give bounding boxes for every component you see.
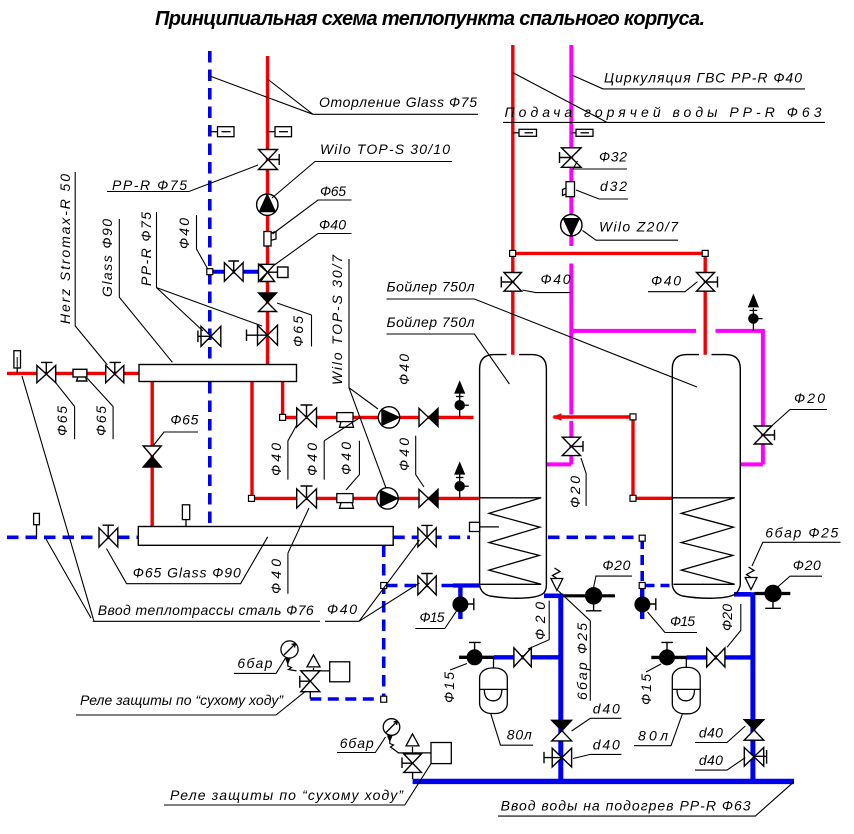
wire: expansion branch boiler2 (black part) y=657.4 <box>651 656 686 659</box>
wire: drain line through ball valve boiler2 y=593.5 <box>755 592 791 595</box>
svg-text:Ф15: Ф15 <box>441 672 457 703</box>
svg-text:6бар: 6бар <box>237 655 272 671</box>
svg-text:Wilo TOP-S 30/7: Wilo TOP-S 30/7 <box>329 254 345 385</box>
svg-text:Ф20: Ф20 <box>793 557 821 573</box>
svg-text:d40: d40 <box>699 725 723 741</box>
leader: F20 circulation boiler2 label <box>766 410 827 432</box>
gauge pocket on circulation riser <box>571 129 593 136</box>
leader: F20 drain boiler1 label <box>593 576 632 590</box>
leader: F20 expansion valve2 rotated <box>727 604 741 647</box>
leader: Wilo TOP-S 30/7 rotated <box>349 259 386 488</box>
wire: red link boiler1 to boiler2 y=417 <box>554 415 634 418</box>
leader: circulation GVS label <box>572 75 805 89</box>
svg-text:Wilo TOP-S 30/10: Wilo TOP-S 30/10 <box>320 141 450 157</box>
wire: heating supply riser (red) x=267.5 <box>266 56 269 365</box>
expansion tank 80l #1 <box>480 657 508 713</box>
relay1 pulse tube <box>286 659 297 671</box>
union lower pump line <box>337 494 354 509</box>
wire: cold riser1 (thick blue) x=560.8 <box>558 594 563 782</box>
wire: magenta header y=330.9 right part <box>716 329 763 464</box>
leader: F15 tap boiler2 label <box>648 612 698 633</box>
node red link bottom <box>630 495 636 501</box>
balancing valve on blue branch <box>224 261 243 281</box>
wire: red header between boiler risers y=253.4 <box>513 252 705 255</box>
check valve F65 on collector drop <box>143 446 161 467</box>
leader: rotated F65 #2 <box>87 378 113 439</box>
valve F20 expansion branch boiler2 <box>707 648 725 667</box>
wire: drain line through ball valve boiler1 y=595.8 <box>563 594 615 597</box>
wire: heating pump branch (blue solid) y=271.7 <box>210 270 259 274</box>
wire: cold tap under boiler1 inlet x=460.4 <box>458 586 462 620</box>
safety valve 6bar F25 riser2 <box>745 567 757 590</box>
wire: red into boiler2 coil y=498.3 <box>633 497 673 500</box>
gauge pocket on boiler1 riser <box>513 129 537 136</box>
svg-text:Ф40: Ф40 <box>319 217 346 233</box>
wire: magenta riser middle segment <box>569 264 573 415</box>
leader: d40 check2 label <box>695 726 745 743</box>
wire: lower boiler feed line (red) y=498.4 <box>252 497 479 500</box>
leader: Otoplenie label <box>210 76 478 114</box>
leader: 6bar gauge2 label <box>337 737 386 753</box>
check valve F65 on supply riser <box>259 293 277 312</box>
wire: upper boiler feed line (red) y=417.4 <box>283 416 474 419</box>
valve F20 expansion branch boiler1 <box>514 648 531 667</box>
svg-text:Циркуляция ГВС PP-R Ф40: Циркуляция ГВС PP-R Ф40 <box>604 70 802 86</box>
leader: 80l tank1 label <box>491 713 533 745</box>
check valve d40 riser2 <box>744 720 764 741</box>
relay2 air vent <box>406 734 419 753</box>
leader: F65 Glass F90 label <box>107 537 268 584</box>
svg-text:Ф40: Ф40 <box>651 273 681 289</box>
check valve upper pump line <box>419 408 438 426</box>
svg-text:Реле защиты по “сухому ходу”: Реле защиты по “сухому ходу” <box>80 692 284 708</box>
svg-text:Ф40: Ф40 <box>268 443 284 476</box>
svg-text:Wilo Z20/7: Wilo Z20/7 <box>599 219 679 235</box>
svg-text:Ф65: Ф65 <box>93 406 109 436</box>
wire: boiler1 top riser (red) x=513 <box>511 45 514 355</box>
leader: F15 branch1 rotated <box>450 664 467 671</box>
svg-text:d40: d40 <box>699 752 723 768</box>
relay2 valve <box>402 754 421 773</box>
shut-off valve on return riser (left stem) <box>198 326 221 346</box>
leader: Wilo TOP-S 30/10 label <box>272 162 452 199</box>
pump Wilo TOP-S 30/7 upper <box>378 407 399 428</box>
leader: d32 label <box>576 190 628 199</box>
air vent lower boiler feed <box>455 463 469 498</box>
thermometer well on collector2 <box>182 505 189 527</box>
wire: expansion branch boiler1 (blue part) y=657.3 <box>494 655 561 659</box>
leader: F40 check valves label <box>325 540 420 621</box>
thermometer well on entrance <box>14 351 21 374</box>
check valve lower pump line <box>419 489 438 507</box>
wire: magenta header y=330.9 left part <box>571 329 696 333</box>
boiler1 coil <box>480 498 542 585</box>
valve F65 on return entrance <box>99 525 118 547</box>
svg-text:Ф20: Ф20 <box>719 604 735 631</box>
air vent on magenta header <box>749 295 763 331</box>
pump Wilo Z20/7 <box>561 215 582 236</box>
svg-text:d32: d32 <box>600 178 627 194</box>
svg-text:Ф65: Ф65 <box>170 412 198 428</box>
ball valve F15 tap boiler2 <box>635 597 656 612</box>
flow arrow on red link <box>552 413 562 421</box>
valve F65 entrance #2 <box>106 362 124 382</box>
wire: red drop to lower pump line x=252 <box>250 382 253 499</box>
compensator d32 on circulation riser <box>563 182 575 197</box>
svg-text:Ф40: Ф40 <box>396 354 412 385</box>
svg-text:Glass Ф90: Glass Ф90 <box>99 219 115 297</box>
svg-text:6бар: 6бар <box>340 735 374 751</box>
boiler 750l #1 shell <box>480 355 547 599</box>
svg-text:Бойлер 750л: Бойлер 750л <box>387 279 475 295</box>
node lower pump line <box>249 495 255 501</box>
wire: blue dashed to dry-run relay y=699 <box>310 697 383 701</box>
leader: F40 three-way label <box>273 234 352 267</box>
ball valve F15 on expansion branch boiler2 <box>660 642 675 664</box>
svg-text:Ф15: Ф15 <box>420 609 445 625</box>
svg-text:80л: 80л <box>638 728 668 744</box>
wire: boiler2 top riser (red) x=705.2 <box>704 253 707 354</box>
gauge pocket on supply riser top <box>268 127 292 137</box>
svg-text:Ф20: Ф20 <box>567 476 583 508</box>
node on red header right <box>702 250 708 256</box>
leader: Glass F90 <box>119 219 172 362</box>
valve F40 dashed line to boiler1 upper <box>418 525 436 546</box>
valve on supply riser (with right stem) <box>259 150 280 170</box>
dry-run relay assembly 1: manometer <box>281 641 298 658</box>
boiler2 coil <box>672 498 734 585</box>
leader: d40 valve1 label <box>573 754 621 758</box>
node on red header left <box>510 250 516 256</box>
wire: blue solid into boiler1 bottom y=585.5 <box>453 583 480 587</box>
check valve d40 riser1 <box>552 720 572 741</box>
node cold tee lower x=642.2 <box>639 583 645 589</box>
thermometer well on return entrance <box>34 513 40 537</box>
leader: F65 check collector label <box>153 432 198 446</box>
svg-text:Ф40: Ф40 <box>327 601 357 617</box>
wire: relay2 stem to main <box>412 772 414 779</box>
leader: cold water inlet label <box>498 782 794 816</box>
node upper pump line <box>280 414 286 420</box>
wire: blue dashed cold inlet boiler1 y=585.5 <box>386 584 453 588</box>
gauge pocket on return riser top <box>210 127 234 137</box>
wire: blue dashed boiler1 right to tee y=537.3 <box>548 535 641 539</box>
collector: supply manifold Glass F90 <box>139 365 297 382</box>
leader: F40 rotated a <box>288 425 297 480</box>
node relay1 corner <box>381 696 387 702</box>
valve F32 on circulation riser (left stem) <box>560 148 582 168</box>
leader: F20 expansion valve1 rotated <box>528 601 549 649</box>
wire: expansion branch boiler2 (blue part) y=657.4 <box>687 655 753 659</box>
leader: dry-run relay2 label <box>164 764 431 805</box>
leader: F40 rotated c <box>346 441 359 490</box>
svg-text:d40: d40 <box>593 736 620 752</box>
wire: blue dashed drop to relay x=383.7 <box>382 546 386 700</box>
safety valve 6bar F25 riser1 <box>551 568 563 591</box>
svg-text:Ф40: Ф40 <box>176 218 192 249</box>
leader: F15 tap boiler1 label <box>415 610 457 628</box>
relay1 line and pressure switch box <box>302 662 349 682</box>
dry-run relay assembly 2: manometer <box>383 719 400 736</box>
wire: return riser (blue dashed) x=209.8 lower <box>208 382 212 526</box>
wire: return entrance (blue dashed) y=537.3 left <box>7 535 139 539</box>
shut-off valve on supply riser (left stem) <box>247 325 278 345</box>
svg-text:Ф65 Glass Ф90: Ф65 Glass Ф90 <box>133 564 241 580</box>
valve F40 boiler1 top (left stem) <box>501 273 521 292</box>
svg-text:PP-R Ф75: PP-R Ф75 <box>138 212 154 286</box>
leader: hot water supply label <box>503 73 825 123</box>
svg-text:Ф15: Ф15 <box>670 613 695 629</box>
valve F40 upper pump line <box>297 405 317 427</box>
leader: F32 label <box>573 161 627 169</box>
leader: Wilo Z20/7 label <box>583 231 679 241</box>
leader: F40 rotated lower valve <box>288 508 309 594</box>
svg-text:Ф40: Ф40 <box>304 443 320 476</box>
leader: heat main inlet label <box>22 376 320 621</box>
svg-text:Ф65: Ф65 <box>320 183 346 199</box>
wire: blue dashed cold inlet boiler2 y=585.5 <box>646 584 673 588</box>
wire: cold riser2 (thick blue) x=752.9 <box>750 592 755 781</box>
svg-text:Ф65: Ф65 <box>54 406 70 436</box>
svg-text:Принципиальная схема теплопунк: Принципиальная схема теплопункта спально… <box>155 8 705 30</box>
wire: circulation riser (magenta) x=571.3 upper <box>569 45 573 246</box>
leader: F65 check riser rotated <box>277 303 312 347</box>
valve F20 circulation boiler2 (right stem) <box>754 426 774 444</box>
wire: return riser (blue dashed) x=209.8 upper <box>208 51 212 364</box>
wire: blue dashed collector2 to boiler1 y=537.3 <box>393 535 470 539</box>
leader: PP-R F75 top label <box>107 165 258 192</box>
leader: Boiler 750l #2 label <box>387 334 510 384</box>
leader: F40 blue branch <box>197 215 208 269</box>
leader: F20 circulation valve1 rotated <box>581 458 586 506</box>
pump Wilo TOP-S 30/10 <box>257 194 278 215</box>
ball valve F15 tap boiler1 <box>453 597 474 612</box>
valve F40 dashed line to boiler1 lower <box>418 574 436 595</box>
leader: F40 valve boiler2 label <box>648 282 698 292</box>
svg-text:Ф15: Ф15 <box>638 674 654 705</box>
svg-text:Оторление Glass Ф75: Оторление Glass Ф75 <box>319 94 477 110</box>
leader: F20 drain boiler2 label <box>777 576 823 588</box>
valve F40 boiler2 top (right stem) <box>697 273 718 292</box>
svg-text:Ф40: Ф40 <box>541 271 571 287</box>
leader: rotated F65 #1 <box>56 383 75 440</box>
wire: magenta riser lower segment into boiler1 <box>546 421 571 464</box>
leader: d40 valve2 label <box>695 758 745 771</box>
boiler 750l #2 shell <box>672 355 740 599</box>
svg-text:Ввод воды на подогрев PP-R Ф63: Ввод воды на подогрев PP-R Ф63 <box>501 798 751 814</box>
wire: expansion branch boiler1 (black part) y=657.3 <box>459 656 494 659</box>
wire: red drop x=633 <box>631 417 634 498</box>
collector: return manifold Glass F90 <box>138 527 393 546</box>
svg-text:Ф65: Ф65 <box>290 316 306 347</box>
node cold tee upper x=642.2 <box>639 535 645 541</box>
three-way mixing valve F40 <box>259 264 289 281</box>
wire: boiler1 bottom outlet to riser1 <box>544 593 559 598</box>
svg-text:Ф40: Ф40 <box>268 559 284 594</box>
svg-text:Ф20: Ф20 <box>532 602 548 640</box>
svg-text:Ввод теплотрассы сталь Ф76: Ввод теплотрассы сталь Ф76 <box>98 602 314 618</box>
node blue branch tee (return riser) <box>207 269 213 275</box>
air vent upper boiler feed <box>455 382 469 417</box>
compensator flange F65 below pump <box>264 232 276 247</box>
node red link top <box>630 414 636 420</box>
pump Wilo TOP-S 30/7 lower <box>377 488 398 509</box>
svg-text:Ф32: Ф32 <box>599 149 627 165</box>
wire: cold water main y=781.4 <box>413 779 794 784</box>
valve F65 entrance #1 <box>37 362 56 382</box>
leader: 80l tank2 label <box>634 713 683 745</box>
wire: blue dashed drop x=642.2 <box>640 539 644 584</box>
svg-text:80л: 80л <box>507 726 532 742</box>
leader: Boiler 750l #1 label <box>387 299 698 387</box>
svg-text:Ф20: Ф20 <box>602 557 630 573</box>
union flange on entrance <box>73 369 87 381</box>
wire: red drop collector1 to collector2 x=152.2 <box>150 382 153 527</box>
node return tee x=383.7 <box>381 583 387 589</box>
svg-text:PP-R Ф75: PP-R Ф75 <box>112 177 187 193</box>
valve d40 riser2 (right stem) <box>744 748 766 767</box>
drain ball valve boiler2 bottom <box>765 586 781 609</box>
leader: 6bar F25 boiler2 label <box>752 542 841 566</box>
valve F20 circulation boiler1 (right stem) <box>562 437 583 455</box>
svg-text:Бойлер 750л: Бойлер 750л <box>387 314 475 330</box>
leader: PP-R F75 rotated <box>157 212 263 331</box>
relay2 pulse tube <box>388 736 399 753</box>
drain ball valve boiler1 bottom <box>586 588 602 611</box>
leader: F15 branch2 rotated <box>646 664 661 672</box>
svg-text:Ф20: Ф20 <box>794 390 825 406</box>
expansion tank 80l #2 <box>672 657 700 713</box>
leader: F40 valve boiler1 label <box>522 290 570 293</box>
leader: 6bar F25 riser1 rotated <box>558 591 590 701</box>
relay1 valve <box>300 671 320 699</box>
boiler1 sensor box on left wall <box>470 522 499 531</box>
valve F40 lower pump line <box>297 486 317 508</box>
svg-text:d40: d40 <box>593 700 620 716</box>
wire: cold tap between boilers x=642.2 <box>640 586 644 620</box>
leader: dry-run relay1 label <box>76 691 306 715</box>
wire: red drop to upper pump line x=282.6 <box>281 382 284 418</box>
relay2 line and pressure switch box <box>398 743 452 764</box>
union upper pump line <box>337 413 354 428</box>
leader: F40 rotated d <box>416 436 424 487</box>
wire: heating entrance main (red) y=373.4 <box>7 372 140 375</box>
leader: Herz Stromax-R 50 <box>75 172 107 365</box>
svg-text:Ф40: Ф40 <box>396 438 412 471</box>
leader: F65 compensator label <box>273 200 352 234</box>
svg-text:Ф40: Ф40 <box>338 442 354 475</box>
valve d40 riser1 (left stem) <box>544 748 572 767</box>
ball valve F15 on expansion branch boiler1 <box>467 642 482 664</box>
wire: boiler2 bottom outlet to riser2 <box>734 592 751 597</box>
leader: 6bar gauge1 label <box>234 658 286 673</box>
leader: d40 check1 label <box>572 718 622 731</box>
leader: F40 rotated b <box>324 418 360 480</box>
relay1 air vent <box>307 655 320 671</box>
